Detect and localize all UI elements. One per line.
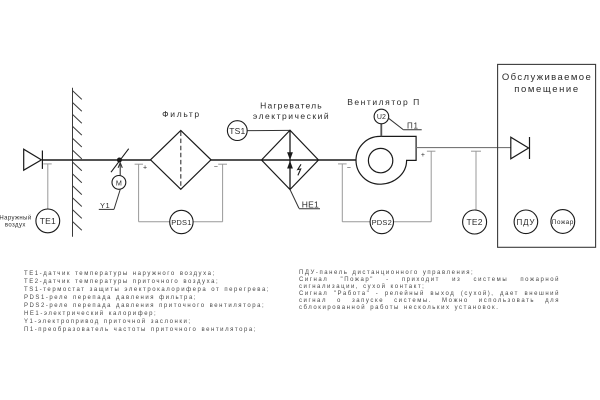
pressure switch PDS2 bbox=[370, 210, 393, 233]
wire TS1 to heater bbox=[247, 129, 290, 131]
label HE1 bbox=[290, 190, 320, 210]
svg-text:TE2: TE2 bbox=[466, 217, 482, 227]
svg-text:Нагреватель: Нагреватель bbox=[260, 100, 323, 110]
pressure taps PDS2 bbox=[338, 151, 435, 222]
duct wire segment 2 (filter to fan) bbox=[211, 159, 356, 161]
served room box bbox=[498, 64, 596, 247]
svg-text:+: + bbox=[143, 164, 147, 171]
supply duct wire (fan outlet to room) bbox=[416, 147, 511, 149]
svg-text:помещение: помещение bbox=[514, 84, 579, 95]
label P1 bbox=[388, 118, 422, 131]
heater HE1 diamond bbox=[262, 130, 319, 189]
svg-text:НЕ1: НЕ1 bbox=[302, 199, 319, 209]
fan P scroll bbox=[356, 136, 416, 184]
label Y1 bbox=[99, 190, 120, 211]
wall with hatching bbox=[73, 88, 82, 237]
svg-text:ПДУ: ПДУ bbox=[517, 218, 536, 227]
pressure switch PDS1 bbox=[170, 210, 193, 233]
sensor tap TE1 bbox=[43, 164, 51, 209]
frequency converter U2 bbox=[374, 109, 389, 124]
svg-text:Y1: Y1 bbox=[100, 201, 110, 210]
svg-text:−: − bbox=[214, 164, 218, 171]
label outside air bbox=[0, 214, 32, 228]
sensor TE2 bbox=[463, 210, 487, 234]
svg-text:Наружный: Наружный bbox=[0, 214, 32, 221]
svg-text:TE1: TE1 bbox=[40, 216, 56, 226]
pressure taps PDS1 bbox=[135, 164, 227, 222]
wire U2 to fan bbox=[380, 124, 382, 137]
damper junction node bbox=[117, 158, 122, 163]
fire signal node bbox=[551, 210, 575, 234]
svg-text:Обслуживаемое: Обслуживаемое bbox=[502, 72, 592, 83]
actuator arrow bbox=[118, 163, 122, 176]
sensor tap TE2 bbox=[471, 151, 481, 210]
svg-text:PDS1: PDS1 bbox=[171, 218, 191, 227]
label heater bbox=[253, 100, 330, 121]
svg-text:Вентилятор П: Вентилятор П bbox=[347, 97, 421, 107]
label served room bbox=[502, 72, 592, 95]
sensor TE1 bbox=[36, 209, 60, 233]
svg-text:−: − bbox=[347, 165, 351, 172]
room diffuser triangle bbox=[511, 137, 530, 159]
legend right column bbox=[299, 270, 560, 313]
svg-text:TS1: TS1 bbox=[229, 126, 245, 136]
svg-text:П1: П1 bbox=[407, 121, 419, 130]
legend left column bbox=[24, 271, 270, 334]
motor M bbox=[112, 176, 126, 190]
air intake damper triangle bbox=[24, 149, 43, 170]
svg-text:U2: U2 bbox=[377, 114, 386, 121]
svg-text:Фильтр: Фильтр bbox=[162, 109, 201, 119]
filter F1 bbox=[151, 130, 212, 189]
svg-text:PDS2: PDS2 bbox=[372, 218, 392, 227]
svg-text:воздух: воздух bbox=[5, 222, 26, 228]
duct wire segment 1 (intake to filter) bbox=[42, 159, 150, 161]
svg-text:Пожар: Пожар bbox=[552, 219, 574, 226]
svg-text:электрический: электрический bbox=[253, 111, 330, 121]
remote panel PDU bbox=[514, 210, 538, 234]
svg-text:M: M bbox=[116, 178, 122, 187]
thermostat TS1 bbox=[227, 121, 247, 141]
svg-text:+: + bbox=[421, 152, 425, 159]
damper blade slash bbox=[111, 149, 129, 173]
